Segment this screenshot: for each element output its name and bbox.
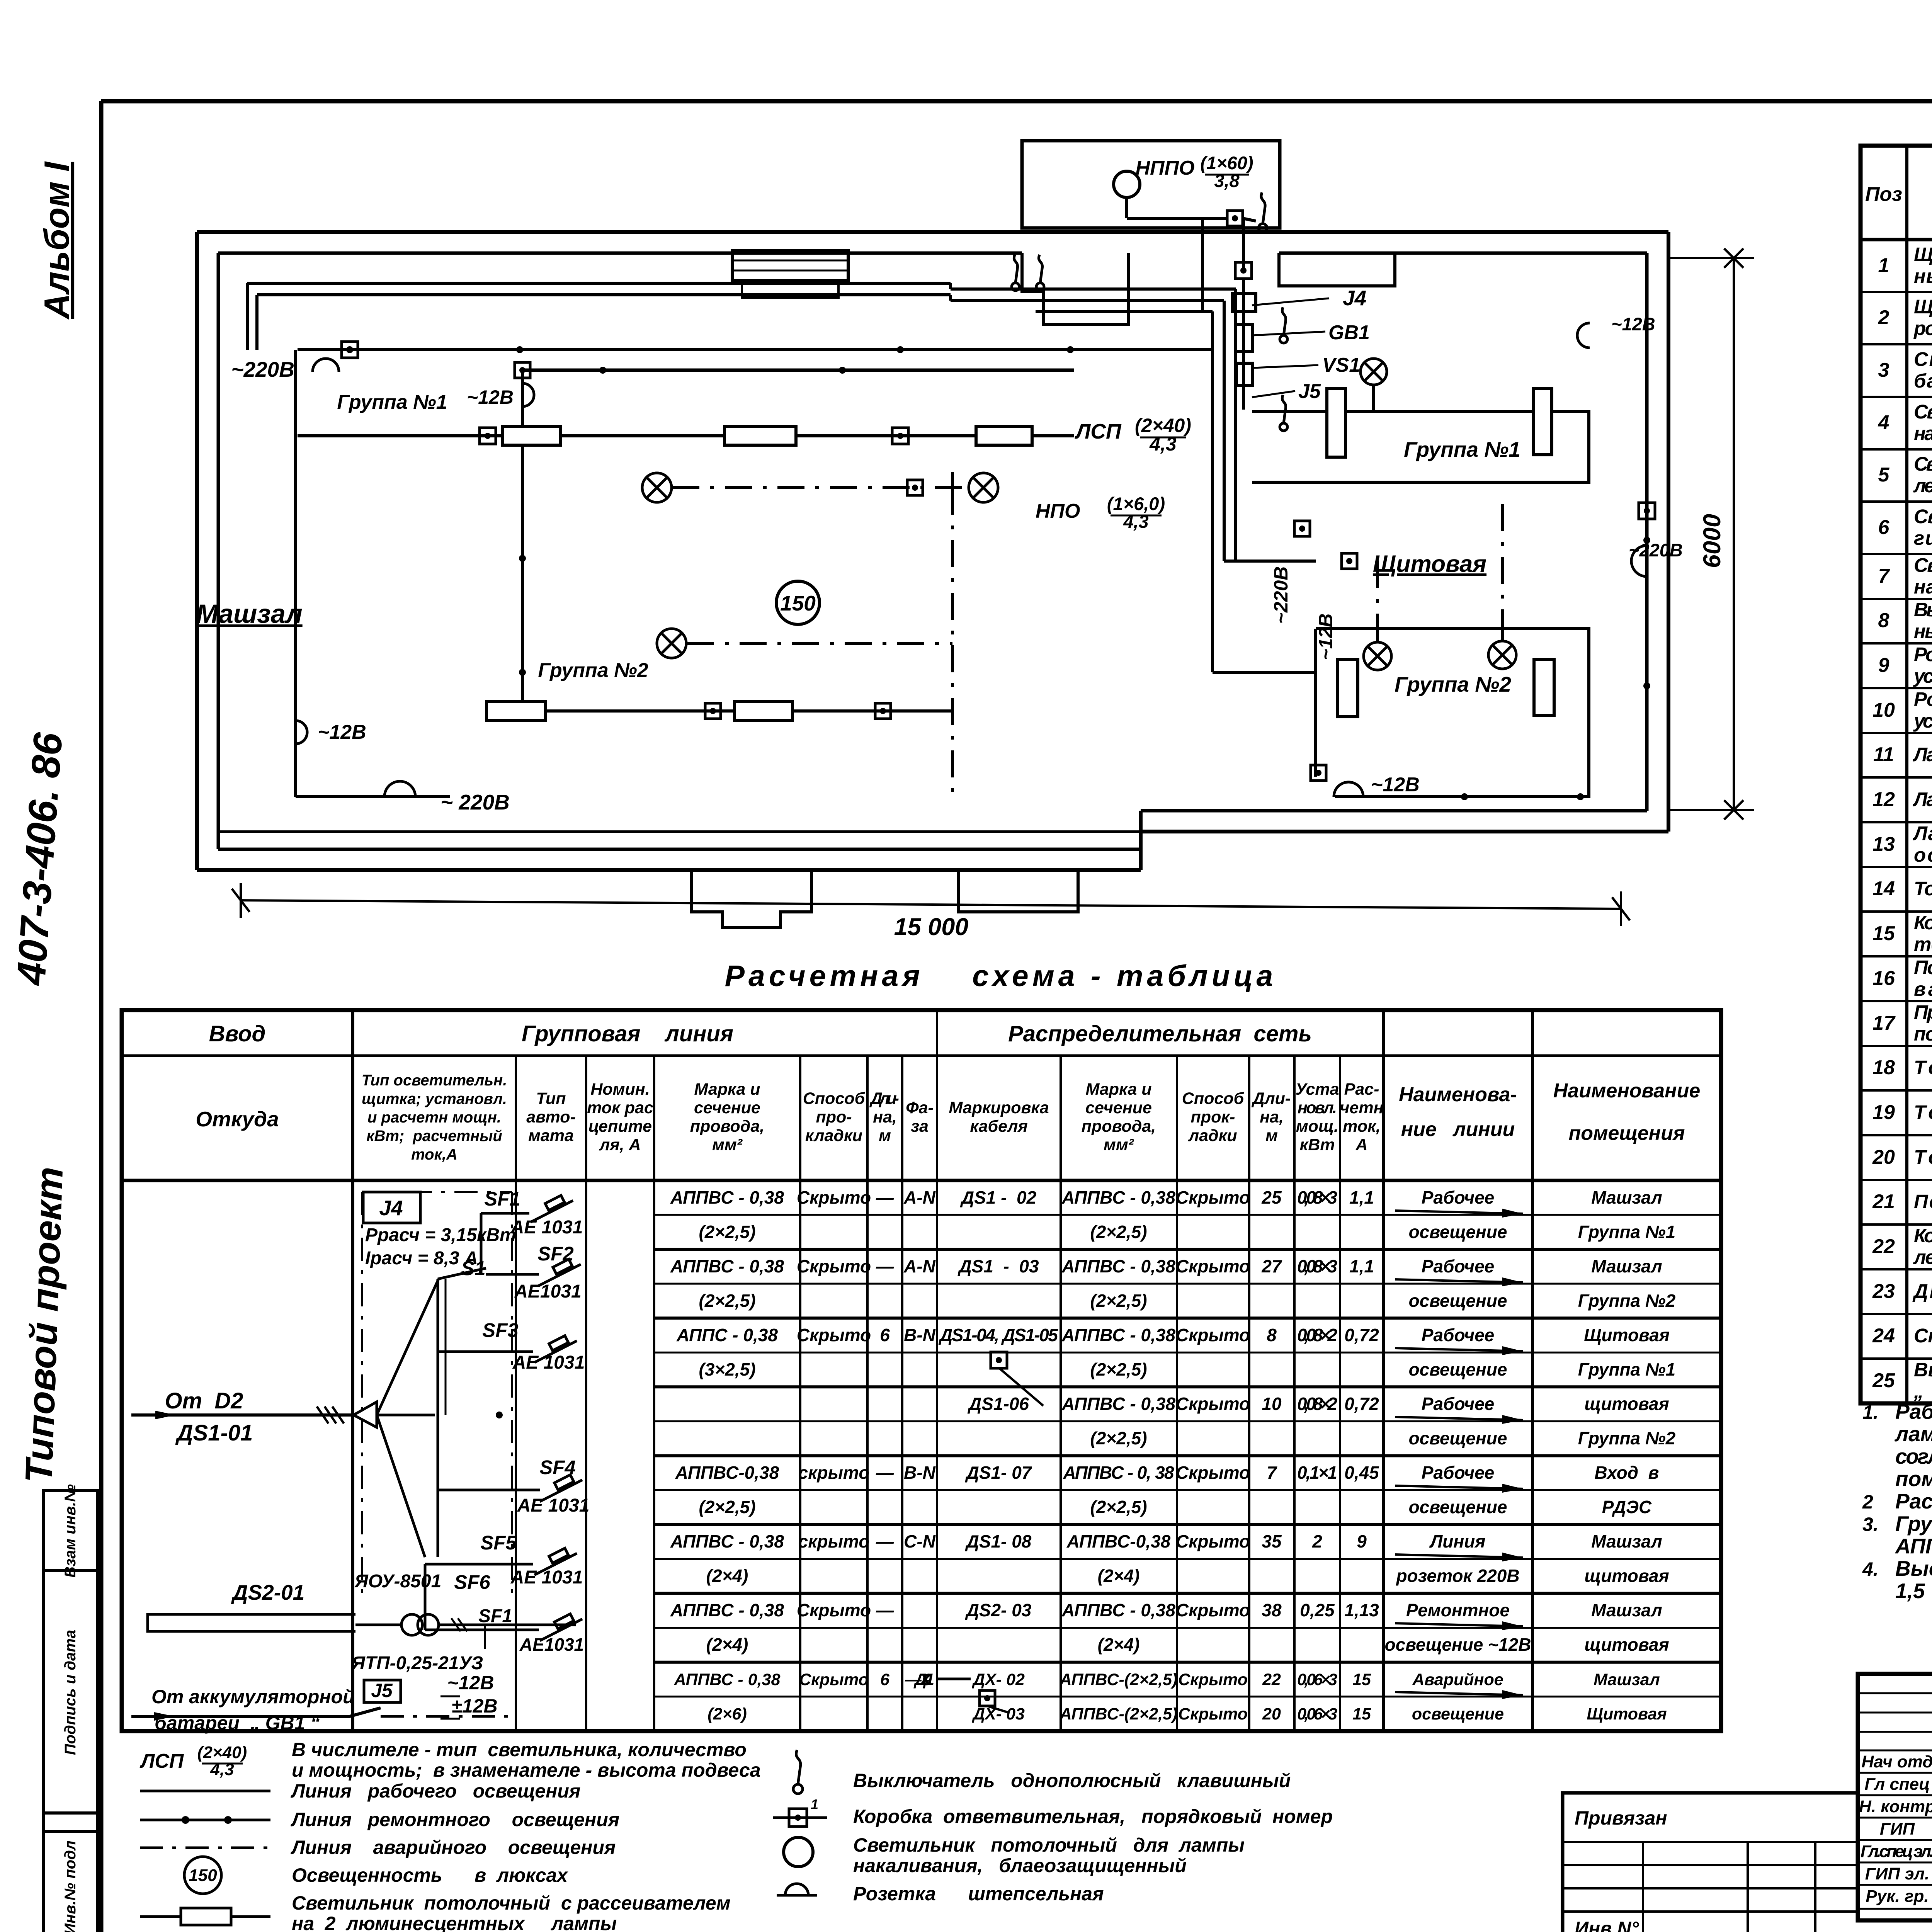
svg-text:1,1: 1,1 [1349, 1187, 1374, 1207]
svg-text:То же,: То же, м [1914, 1146, 1932, 1168]
fluorescent fixture LSP g1 b [724, 427, 796, 445]
svg-text:3.: 3. [1862, 1514, 1879, 1535]
svg-text:SF1: SF1 [478, 1606, 512, 1626]
porch protrusion 2 [958, 870, 1078, 912]
svg-text:ЛСП: ЛСП [1074, 419, 1122, 443]
svg-text:Лампа накаливания нормальная: Лампа накаливания нормальная, шт [1912, 788, 1932, 810]
svg-text:Скрыто: Скрыто [1176, 1463, 1250, 1483]
svg-text:150: 150 [780, 591, 816, 615]
svg-text:ЛСП: ЛСП [139, 1750, 184, 1772]
svg-text:НПО: НПО [1036, 500, 1080, 522]
svg-text:15: 15 [1352, 1705, 1371, 1723]
svg-text:11: 11 [1873, 743, 1894, 766]
svg-text:Группа №1: Группа №1 [337, 391, 447, 413]
svg-text:То же, аварийного освещения,: То же, аварийного освещения, шт. [1914, 878, 1932, 900]
svg-text:(2×2,5): (2×2,5) [699, 1291, 755, 1311]
svg-text:Распределительная сеть: Распределительная сеть [1008, 1021, 1312, 1046]
svg-text:Инв.№ подл: Инв.№ подл [62, 1840, 79, 1932]
svg-text:1,1: 1,1 [1349, 1256, 1374, 1276]
svg-text:407-3-406. 86: 407-3-406. 86 [8, 731, 71, 987]
svg-text:цепите: цепите [588, 1117, 652, 1136]
svg-text:7: 7 [1878, 565, 1890, 587]
svg-text:B-N: B-N [904, 1463, 936, 1483]
svg-text:АППВС - 0,38: АППВС - 0,38 [1061, 1325, 1175, 1345]
svg-text:ДХ- 02: ДХ- 02 [971, 1670, 1025, 1689]
svg-text:(2×40): (2×40) [197, 1743, 247, 1762]
fluorescent fixture LSP g1 a [502, 427, 560, 445]
wire riser bundle horizontal [951, 287, 1236, 291]
svg-text:(2×4): (2×4) [706, 1566, 748, 1586]
svg-text:ДS2- 03: ДS2- 03 [965, 1600, 1032, 1620]
transformer ЯТП [401, 1614, 422, 1635]
svg-text:АППВС - 0, 38: АППВС - 0, 38 [1063, 1463, 1174, 1483]
svg-text:Рук. гр.: Рук. гр. [1866, 1887, 1929, 1906]
svg-text:Марка и: Марка и [694, 1080, 760, 1099]
wire second feed mashzal [522, 369, 1074, 372]
svg-text:гибким шлангом,: гибким шлангом, шт [1914, 527, 1932, 549]
lamp shchitovaya g2 b [1488, 641, 1516, 669]
svg-text:Освещенность в люксах: Освещенность в люксах [292, 1864, 568, 1886]
svg-text:щитовая: щитовая [1584, 1394, 1669, 1414]
svg-text:розеток 220В: розеток 220В [1395, 1566, 1519, 1586]
svg-text:0,06×3: 0,06×3 [1297, 1670, 1337, 1689]
wire right wall vertical [1645, 504, 1649, 811]
svg-text:ЯТП-0,25-21УЗ: ЯТП-0,25-21УЗ [351, 1653, 483, 1673]
svg-text:J4: J4 [379, 1196, 403, 1220]
junction box in detail [1227, 211, 1243, 226]
svg-text:8: 8 [1267, 1325, 1277, 1345]
junction on group1 line [892, 428, 908, 444]
svg-text:ток,: ток, [1343, 1117, 1381, 1136]
svg-text:Откуда: Откуда [196, 1107, 279, 1131]
svg-text:3: 3 [1878, 359, 1889, 381]
svg-text:провода,: провода, [1082, 1117, 1156, 1136]
svg-text:АЕ 1031: АЕ 1031 [510, 1217, 583, 1238]
svg-text:поливинилхлоридной изоляции,: поливинилхлоридной изоляции, м [1914, 1023, 1932, 1045]
wire bottom dots [1461, 793, 1468, 800]
svg-text:Группа №1: Группа №1 [1578, 1359, 1675, 1379]
svg-text:Фа-: Фа- [906, 1099, 934, 1117]
junction marker DX [980, 1690, 995, 1706]
svg-text:1,5 м от пола.: 1,5 м от пола. [1895, 1579, 1932, 1603]
svg-text:Типовой проект: Типовой проект [17, 1166, 71, 1484]
fixture vertical g2 a [1338, 660, 1358, 717]
svg-text:38: 38 [1262, 1600, 1282, 1620]
lamp mashzal emergency 1 [642, 473, 672, 502]
fixture LSP g2 b [735, 702, 793, 720]
svg-text:Светильник потолочный для ла: Светильник потолочный для лампы [1914, 401, 1932, 423]
svg-text:провода,: провода, [690, 1117, 764, 1136]
svg-text:АЕ1031: АЕ1031 [519, 1634, 584, 1655]
svg-text:0,06×3: 0,06×3 [1297, 1705, 1337, 1723]
svg-text:(2×2,5): (2×2,5) [1090, 1428, 1147, 1448]
vestibule walls upper [1022, 253, 1128, 325]
svg-text:1: 1 [811, 1796, 818, 1812]
svg-text:АППВС - 0,38: АППВС - 0,38 [670, 1256, 784, 1276]
svg-text:~12В: ~12В [1371, 774, 1420, 796]
svg-text:мм²: мм² [712, 1136, 743, 1154]
svg-text:Рабочее: Рабочее [1422, 1187, 1495, 1207]
svg-text:~12В: ~12В [447, 1672, 494, 1694]
svg-text:—: — [876, 1256, 894, 1276]
svg-text:Взам инв.№: Взам инв.№ [62, 1484, 79, 1578]
svg-text:установки с плоскими контактам: установки с плоскими контактами, шт. [1913, 710, 1932, 732]
junction emergency [907, 480, 923, 495]
svg-text:Потолочная розетка пластма: Потолочная розетка пластмассо- [1914, 956, 1932, 978]
wall ledge line [218, 830, 1141, 833]
wall switches at vestibule [1012, 283, 1019, 291]
svg-text:2: 2 [1862, 1491, 1873, 1513]
wire riser bundle vertical [1211, 311, 1214, 672]
svg-text:Гл.спец эл.: Гл.спец эл. [1861, 1842, 1932, 1861]
legend fluorescent fixture [140, 1915, 270, 1918]
svg-text:кабеля: кабеля [970, 1117, 1027, 1136]
svg-text:—: — [876, 1187, 894, 1207]
svg-text:вая,: вая, шт. [1914, 978, 1932, 1000]
svg-text:Дли-: Дли- [1251, 1089, 1291, 1108]
svg-text:мата: мата [528, 1126, 574, 1145]
svg-text:ДS2-01: ДS2-01 [231, 1580, 304, 1604]
svg-text:15: 15 [1352, 1670, 1371, 1689]
svg-text:Привязан: Привязан [1575, 1807, 1667, 1829]
svg-text:4,3: 4,3 [1123, 511, 1148, 532]
panel J5 box [364, 1680, 401, 1702]
svg-text:—: — [876, 1463, 894, 1483]
svg-text:Коробка ответвительная, пор: Коробка ответвительная, порядковый номер [853, 1806, 1333, 1827]
svg-text:Скрыто: Скрыто [1176, 1325, 1250, 1345]
svg-text:4,3: 4,3 [210, 1760, 234, 1779]
svg-text:ными автоматами,: ными автоматами, шт. [1914, 265, 1932, 287]
svg-text:ДS1- 08: ДS1- 08 [965, 1531, 1032, 1551]
svg-text:~12В: ~12В [1611, 314, 1655, 334]
svg-text:Расчетная схема - таблица: Расчетная схема - таблица [725, 959, 1277, 993]
svg-text:SF6: SF6 [454, 1571, 490, 1593]
svg-text:Светильник потолочный с расс: Светильник потолочный с рассеивателем [292, 1892, 731, 1914]
feed point 12V [522, 383, 534, 406]
group2 loop shchitovaya [1316, 629, 1589, 797]
svg-text:A-N: A-N [903, 1256, 936, 1276]
svg-text:23: 23 [1872, 1280, 1895, 1303]
svg-text:ный для скрытой установки,: ный для скрытой установки, шт. [1914, 620, 1932, 642]
svg-text:согласно нормам СН и П II -: согласно нормам СН и П II - 4 -79 и „ но… [1895, 1444, 1932, 1468]
svg-text:Скрыто: Скрыто [799, 1670, 869, 1689]
svg-text:АППВС - 0,38: АППВС - 0,38 [1061, 1256, 1175, 1276]
bus vertical [437, 1279, 439, 1557]
svg-text:Скрыто: Скрыто [1176, 1394, 1250, 1414]
building wall left [195, 232, 199, 870]
svg-text:Группа №1: Группа №1 [1404, 437, 1520, 461]
feed 12V bottom shchitovaya [1334, 782, 1363, 797]
svg-text:7: 7 [1267, 1463, 1277, 1483]
svg-text:35: 35 [1262, 1531, 1282, 1551]
svg-text:ДS1- 07: ДS1- 07 [965, 1463, 1032, 1483]
svg-text:Коробка ответвительная для: Коробка ответвительная для скры [1914, 912, 1932, 934]
wire bottom mashzal [296, 795, 450, 798]
svg-text:~12В: ~12В [467, 386, 514, 408]
svg-text:Подпись и дата: Подпись и дата [62, 1630, 79, 1755]
svg-text:АППВС - 0,38: АППВС - 0,38 [670, 1531, 784, 1551]
legend repair line [140, 1819, 270, 1821]
svg-text:Тип осветительн.: Тип осветительн. [362, 1072, 507, 1089]
svg-text:25: 25 [1261, 1187, 1282, 1207]
svg-text:НППО: НППО [1136, 157, 1195, 179]
legend junction box [773, 1816, 827, 1819]
svg-text:освещение: освещение [1409, 1291, 1507, 1311]
svg-text:(2×4): (2×4) [706, 1634, 748, 1655]
svg-text:АППВС - 0,38: АППВС - 0,38 [1061, 1600, 1175, 1620]
svg-text:Коробка для установки выклю: Коробка для установки выключате- [1914, 1225, 1932, 1247]
svg-text:ГИП: ГИП [1880, 1820, 1915, 1838]
svg-text:щитовая: щитовая [1584, 1566, 1669, 1586]
svg-text:Скрыто: Скрыто [1176, 1600, 1250, 1620]
svg-text:Машзал: Машзал [196, 599, 302, 629]
svg-text:4.: 4. [1862, 1558, 1879, 1580]
svg-text:~ 220В: ~ 220В [440, 790, 510, 814]
svg-text:Линия ремонтного освещени: Линия ремонтного освещения [291, 1809, 619, 1830]
wire run along top wall [247, 282, 951, 285]
dimension line 6000 [1733, 258, 1735, 810]
svg-text:кладки: кладки [805, 1126, 862, 1145]
svg-text:ток рас: ток рас [587, 1099, 653, 1117]
svg-text:Дли-: Дли- [869, 1089, 899, 1108]
svg-text:Групповая линия: Групповая линия [522, 1021, 733, 1046]
svg-text:~12В: ~12В [318, 721, 366, 743]
svg-text:0,08×2: 0,08×2 [1297, 1394, 1337, 1414]
svg-text:6000: 6000 [1699, 514, 1726, 568]
callout GB1 [1252, 332, 1325, 335]
svg-text:освещение: освещение [1409, 1222, 1507, 1242]
svg-text:Машзал: Машзал [1591, 1256, 1662, 1276]
svg-text:6: 6 [880, 1670, 890, 1689]
svg-text:10: 10 [1872, 699, 1895, 721]
svg-text:9: 9 [1357, 1531, 1367, 1551]
svg-text:Аварийное: Аварийное [1412, 1670, 1503, 1689]
switch symbols near equipment [1280, 335, 1287, 343]
inventory strip [43, 1491, 97, 1932]
svg-text:Способ: Способ [1182, 1089, 1245, 1108]
svg-text:сечение: сечение [1085, 1099, 1152, 1117]
svg-text:мощ.: мощ. [1296, 1117, 1338, 1136]
svg-text:авто-: авто- [526, 1108, 576, 1126]
svg-text:A-N: A-N [903, 1187, 936, 1207]
lamp mashzal emergency 2 [969, 473, 998, 502]
svg-text:То же,: То же, м [1914, 1101, 1932, 1123]
svg-text:Рабочее: Рабочее [1422, 1463, 1495, 1483]
svg-text:13: 13 [1872, 833, 1895, 855]
svg-text:Группа №2: Группа №2 [1578, 1428, 1676, 1448]
svg-text:Маркировка: Маркировка [949, 1099, 1049, 1117]
svg-text:той электропроводки,: той электропроводки, шт. [1914, 933, 1932, 955]
lamp shchitovaya g2 a [1364, 642, 1391, 670]
svg-text:Светильник потолочный с рассе: Светильник потолочный с рассеивате- [1914, 453, 1932, 475]
svg-text:новл.: новл. [1298, 1099, 1337, 1117]
svg-text:J4: J4 [1343, 286, 1366, 310]
svg-text:Рабочее освещение здания вы: Рабочее освещение здания выполнено свети… [1895, 1400, 1932, 1423]
svg-text:Линия аварийного освещен: Линия аварийного освещения [291, 1837, 616, 1858]
svg-text:Способ: Способ [803, 1089, 866, 1108]
calc table grid [122, 1010, 1721, 1731]
svg-text:Номин.: Номин. [590, 1080, 650, 1099]
svg-text:Рабочее: Рабочее [1422, 1256, 1495, 1276]
wire vertical x1350 [521, 370, 524, 711]
svg-text:6: 6 [1878, 516, 1890, 539]
lamp shchitovaya g1 [1361, 359, 1387, 385]
svg-text:ГИП эл.: ГИП эл. [1865, 1864, 1929, 1883]
wire left drop mashzal [294, 350, 297, 797]
svg-text:накаливания до 60Вт,: накаливания до 60Вт, шт. [1914, 576, 1932, 598]
svg-text:От аккумуляторной: От аккумуляторной [151, 1686, 355, 1708]
fixture LSP g2 a [486, 702, 546, 720]
svg-text:17: 17 [1872, 1012, 1896, 1034]
feed point 220V left [313, 359, 339, 372]
svg-text:про-: про- [816, 1108, 852, 1126]
svg-text:Ррасч = 3,15кВт: Ррасч = 3,15кВт [365, 1225, 516, 1245]
svg-text:ДS1-01: ДS1-01 [175, 1420, 253, 1446]
svg-text:на 2 люминесцентных ламп: на 2 люминесцентных лампы [292, 1913, 617, 1932]
svg-text:(2×2,5): (2×2,5) [1090, 1359, 1147, 1379]
svg-text:Ввод: Ввод [209, 1021, 266, 1046]
svg-text:Скрыто: Скрыто [1178, 1705, 1248, 1723]
svg-text:м: м [1265, 1126, 1278, 1145]
legend working line [140, 1790, 270, 1793]
legend incandescent lamp [784, 1837, 813, 1867]
svg-text:Уста: Уста [1295, 1080, 1339, 1099]
svg-text:помещений станций и: помещений станций и подстанции “. [1895, 1467, 1932, 1491]
title block frame [1858, 1674, 1932, 1920]
svg-text:Лампа накаливания местног: Лампа накаливания местного [1912, 822, 1932, 844]
building wall bottom right section [1141, 830, 1668, 833]
svg-text:В числителе - тип светильника: В числителе - тип светильника, количеств… [292, 1739, 747, 1760]
svg-text:25: 25 [1872, 1369, 1895, 1392]
svg-text:Ремонтное: Ремонтное [1406, 1600, 1510, 1620]
svg-text:150: 150 [189, 1866, 217, 1885]
svg-text:четн: четн [1340, 1099, 1383, 1117]
dimension line 15000 [241, 900, 1621, 909]
switch in detail box [1259, 224, 1267, 232]
svg-text:ние линии: ние линии [1401, 1118, 1515, 1141]
svg-text:Линия: Линия [1429, 1531, 1486, 1551]
spec table grid [1861, 146, 1932, 1403]
svg-text:м: м [879, 1126, 891, 1145]
svg-text:АПППС и АППВС скрыто: АПППС и АППВС скрыто под штукатуркой . [1895, 1534, 1932, 1558]
svg-text:Розетка штепсельная. скрыто: Розетка штепсельная. скрытой [1914, 688, 1932, 710]
svg-text:Стартерная аккумуляторная: Стартерная аккумуляторная [1914, 348, 1932, 370]
svg-text:лей и штепсельных розеток,: лей и штепсельных розеток, шт. [1913, 1246, 1932, 1268]
svg-text:Щиток осветительный с 6 одноп: Щиток осветительный с 6 однополюс- [1914, 243, 1932, 265]
svg-text:АППВС - 0,38: АППВС - 0,38 [670, 1600, 784, 1620]
wire group1 line mashzal [298, 434, 1074, 437]
building wall step [1139, 811, 1143, 870]
svg-text:16: 16 [1872, 967, 1895, 990]
svg-text:5: 5 [1878, 464, 1890, 486]
feed 220V bottom [384, 781, 415, 797]
g2 emergency dash-dot [687, 642, 952, 645]
svg-text:АЕ1031: АЕ1031 [514, 1281, 581, 1302]
svg-text:Выключатель однополюсный кла: Выключатель однополюсный клавиш- [1914, 599, 1932, 621]
svg-text:Рас-: Рас- [1344, 1080, 1379, 1099]
svg-text:„ VS1 “ ,: „ VS1 “ , шт. [1913, 1380, 1932, 1402]
svg-text:Наименование: Наименование [1553, 1080, 1701, 1102]
svg-text:освещения,: освещения, шт. [1914, 844, 1932, 866]
svg-text:27: 27 [1261, 1256, 1282, 1276]
svg-text:0,1×1: 0,1×1 [1297, 1463, 1337, 1483]
svg-text:Провод с алюминиевыми жила: Провод с алюминиевыми жилами в [1914, 1001, 1932, 1023]
svg-text:Лампа люминесцентная белая,: Лампа люминесцентная белая, шт. [1912, 743, 1932, 765]
svg-text:15: 15 [1872, 922, 1895, 945]
svg-text:и мощность; в знаменателе - в: и мощность; в знаменателе - высота подве… [292, 1759, 761, 1781]
building wall bottom left section [197, 868, 1141, 872]
svg-text:АЕ 1031: АЕ 1031 [512, 1352, 585, 1373]
svg-text:лампами и лампами накали: лампами и лампами накаливания. Освещенно… [1894, 1422, 1932, 1446]
svg-text:АППВС-0,38: АППВС-0,38 [675, 1463, 779, 1483]
svg-text:ДS1-04, ДS1-05: ДS1-04, ДS1-05 [938, 1325, 1058, 1345]
svg-text:АППВС - 0,38: АППВС - 0,38 [1061, 1187, 1175, 1207]
svg-text:Скрыто: Скрыто [1176, 1256, 1250, 1276]
drawing sheet frame [101, 99, 1932, 104]
svg-text:~220В: ~220В [1629, 540, 1683, 560]
svg-text:установки с цилиндр. контактам: установки с цилиндр. контактами, шт [1913, 665, 1932, 687]
svg-text:Скрыто: Скрыто [1176, 1531, 1250, 1551]
svg-text:C-N: C-N [904, 1531, 936, 1551]
callout J5 [1252, 391, 1295, 397]
svg-text:Скрыто: Скрыто [1178, 1670, 1248, 1689]
svg-text:кВт: кВт [1299, 1136, 1335, 1154]
svg-text:Дюбель - винт, ком: Дюбель - винт, компл. [1912, 1280, 1932, 1302]
svg-text:на,: на, [1260, 1108, 1284, 1126]
feed 12V shchitovaya right [1577, 323, 1590, 348]
svg-text:Инв N°: Инв N° [1575, 1918, 1639, 1932]
svg-text:Выпрямительное устройство: Выпрямительное устройство [1914, 1359, 1932, 1381]
svg-text:0,72: 0,72 [1344, 1325, 1379, 1345]
svg-text:(3×2,5): (3×2,5) [699, 1359, 755, 1379]
svg-text:(2×6): (2×6) [707, 1705, 747, 1723]
entrance stairs block [732, 250, 848, 281]
svg-text:прок-: прок- [1191, 1108, 1235, 1126]
svg-text:0,25: 0,25 [1300, 1600, 1335, 1620]
svg-text:20: 20 [1872, 1146, 1895, 1168]
svg-text:АППВС-(2×2,5): АППВС-(2×2,5) [1060, 1670, 1178, 1689]
wire riser to detail box [1201, 218, 1204, 311]
svg-text:(2×4): (2×4) [1098, 1566, 1140, 1586]
svg-text:Щитовая: Щитовая [1584, 1325, 1670, 1345]
svg-text:(2×4): (2×4) [1098, 1634, 1140, 1655]
svg-text:0,08×2: 0,08×2 [1297, 1325, 1337, 1345]
svg-text:и расчетн мощн.: и расчетн мощн. [367, 1109, 501, 1126]
svg-text:лем на 2 люминесцентных лампы: лем на 2 люминесцентных лампы, шт [1913, 474, 1932, 497]
svg-text:Машзал: Машзал [1591, 1600, 1662, 1620]
svg-text:освещение: освещение [1412, 1705, 1504, 1723]
junction g2 [705, 703, 721, 719]
svg-text:Линия рабочего освещения: Линия рабочего освещения [291, 1780, 580, 1802]
svg-text:ром и автом. выключателем,: ром и автом. выключателем, шт. [1913, 317, 1932, 339]
svg-text:ДS1 - 03: ДS1 - 03 [957, 1256, 1039, 1276]
svg-text:~12В: ~12В [1315, 614, 1337, 660]
svg-text:Марка и: Марка и [1086, 1080, 1152, 1099]
svg-text:(2×2,5): (2×2,5) [699, 1497, 755, 1517]
svg-text:Машзал: Машзал [1591, 1531, 1662, 1551]
svg-text:—: — [876, 1600, 894, 1620]
svg-text:3,8: 3,8 [1214, 170, 1240, 191]
svg-text:(2×2,5): (2×2,5) [1090, 1222, 1147, 1242]
svg-text:20: 20 [1262, 1705, 1281, 1723]
svg-text:АППВС - 0,38: АППВС - 0,38 [670, 1187, 784, 1207]
svg-text:Скрыто: Скрыто [797, 1256, 871, 1276]
svg-text:Скобы полиэтиленовые,: Скобы полиэтиленовые, шт. [1914, 1325, 1932, 1347]
svg-text:скрыто: скрыто [798, 1463, 870, 1483]
svg-text:ДХ- 03: ДХ- 03 [971, 1705, 1025, 1723]
svg-text:ДS1 - 02: ДS1 - 02 [960, 1187, 1037, 1207]
svg-text:0,08×3: 0,08×3 [1297, 1256, 1337, 1276]
